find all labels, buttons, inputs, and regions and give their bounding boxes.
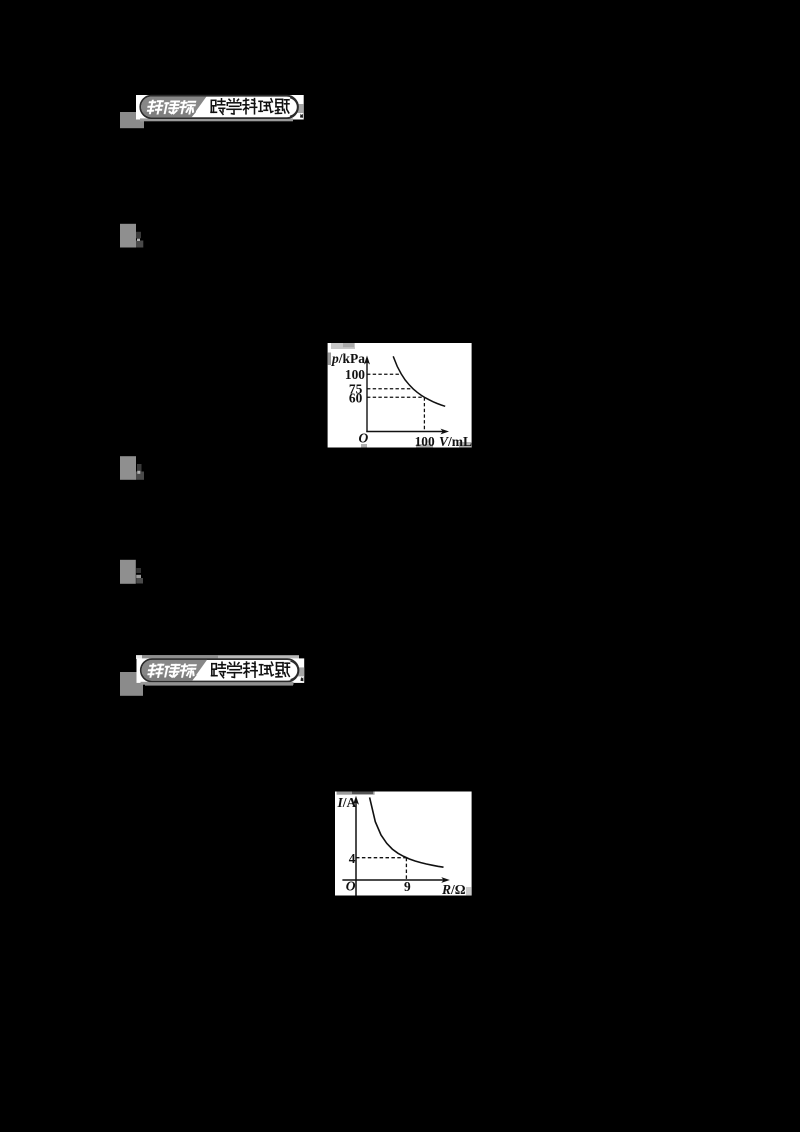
left margin bar (black, invisible on black bg) — [113, 0, 121, 1030]
list mark B (y~456) — [120, 456, 144, 480]
gray smudge right of V/mL — [459, 442, 472, 448]
extra shadow under pill 2 — [145, 682, 293, 685]
gray square under badge 2 — [120, 672, 143, 696]
white figure box — [335, 792, 472, 896]
graph 1 (p/kPa vs V/mL) — [328, 343, 472, 449]
badge 2 "新课标 跨学科试题" (copy of badge 1) — [136, 655, 304, 685]
dashed guide V=100 — [423, 397, 425, 431]
badge 1 "新课标 跨学科试题" — [136, 95, 304, 121]
char 学 (black) — [227, 99, 241, 114]
y axis — [355, 802, 357, 896]
char 课 (white) — [163, 102, 179, 114]
dark left segment — [141, 97, 206, 118]
segment bottom shading — [142, 112, 196, 118]
svg-text:R/Ω: R/Ω — [441, 882, 466, 897]
dashed guide R=9 — [405, 858, 407, 880]
char 科 (black) — [243, 99, 257, 114]
svg-text:O: O — [359, 431, 369, 446]
gray tail right of pill — [298, 104, 304, 113]
pill outline — [140, 96, 298, 118]
char 试 (black) — [259, 99, 273, 113]
gray square under badge 1 — [120, 112, 144, 128]
gray strip top-left — [337, 792, 375, 795]
curve p-V hyperbola — [393, 356, 445, 406]
dashed guide I=4 — [356, 857, 406, 859]
gray smudge top-left — [331, 343, 355, 349]
white figure box — [328, 343, 472, 448]
curve I-R hyperbola — [370, 797, 444, 867]
gray strip above pill top — [136, 655, 299, 659]
shadow strip under pill — [140, 118, 293, 121]
gray smudge under 100 — [416, 444, 433, 448]
x axis — [366, 431, 443, 433]
svg-text:100: 100 — [345, 367, 365, 382]
y axis — [366, 362, 368, 432]
gray square behind R/Ohm — [466, 887, 472, 895]
list mark C (y~560) — [120, 560, 143, 584]
char 新 (white) — [147, 101, 163, 114]
svg-text:4: 4 — [349, 851, 356, 866]
dashed guide p=60 — [367, 396, 424, 398]
x axis — [342, 879, 443, 881]
char 跨 (black) — [211, 99, 225, 115]
gray smudge under O — [361, 444, 367, 448]
svg-text:V/mL: V/mL — [439, 434, 472, 449]
svg-text:100: 100 — [415, 434, 435, 449]
char 题 (black) — [276, 99, 290, 113]
white backing rect — [136, 95, 304, 120]
char 标 (white) — [179, 101, 196, 113]
graph 2 (I/A vs R/Ohm) — [335, 792, 472, 897]
svg-text:O: O — [346, 879, 356, 894]
svg-text:p/kPa: p/kPa — [331, 351, 365, 366]
gray sliver left edge — [328, 353, 331, 366]
tiny black mark right of badge — [300, 114, 303, 118]
list mark A (y~224) — [120, 224, 143, 248]
svg-text:60: 60 — [349, 391, 363, 406]
dashed guide p=100 — [367, 373, 401, 375]
dashed guide p=75 — [367, 388, 413, 390]
inner right double-arc — [290, 98, 297, 116]
svg-text:9: 9 — [404, 879, 411, 894]
svg-text:I/A: I/A — [337, 795, 357, 810]
